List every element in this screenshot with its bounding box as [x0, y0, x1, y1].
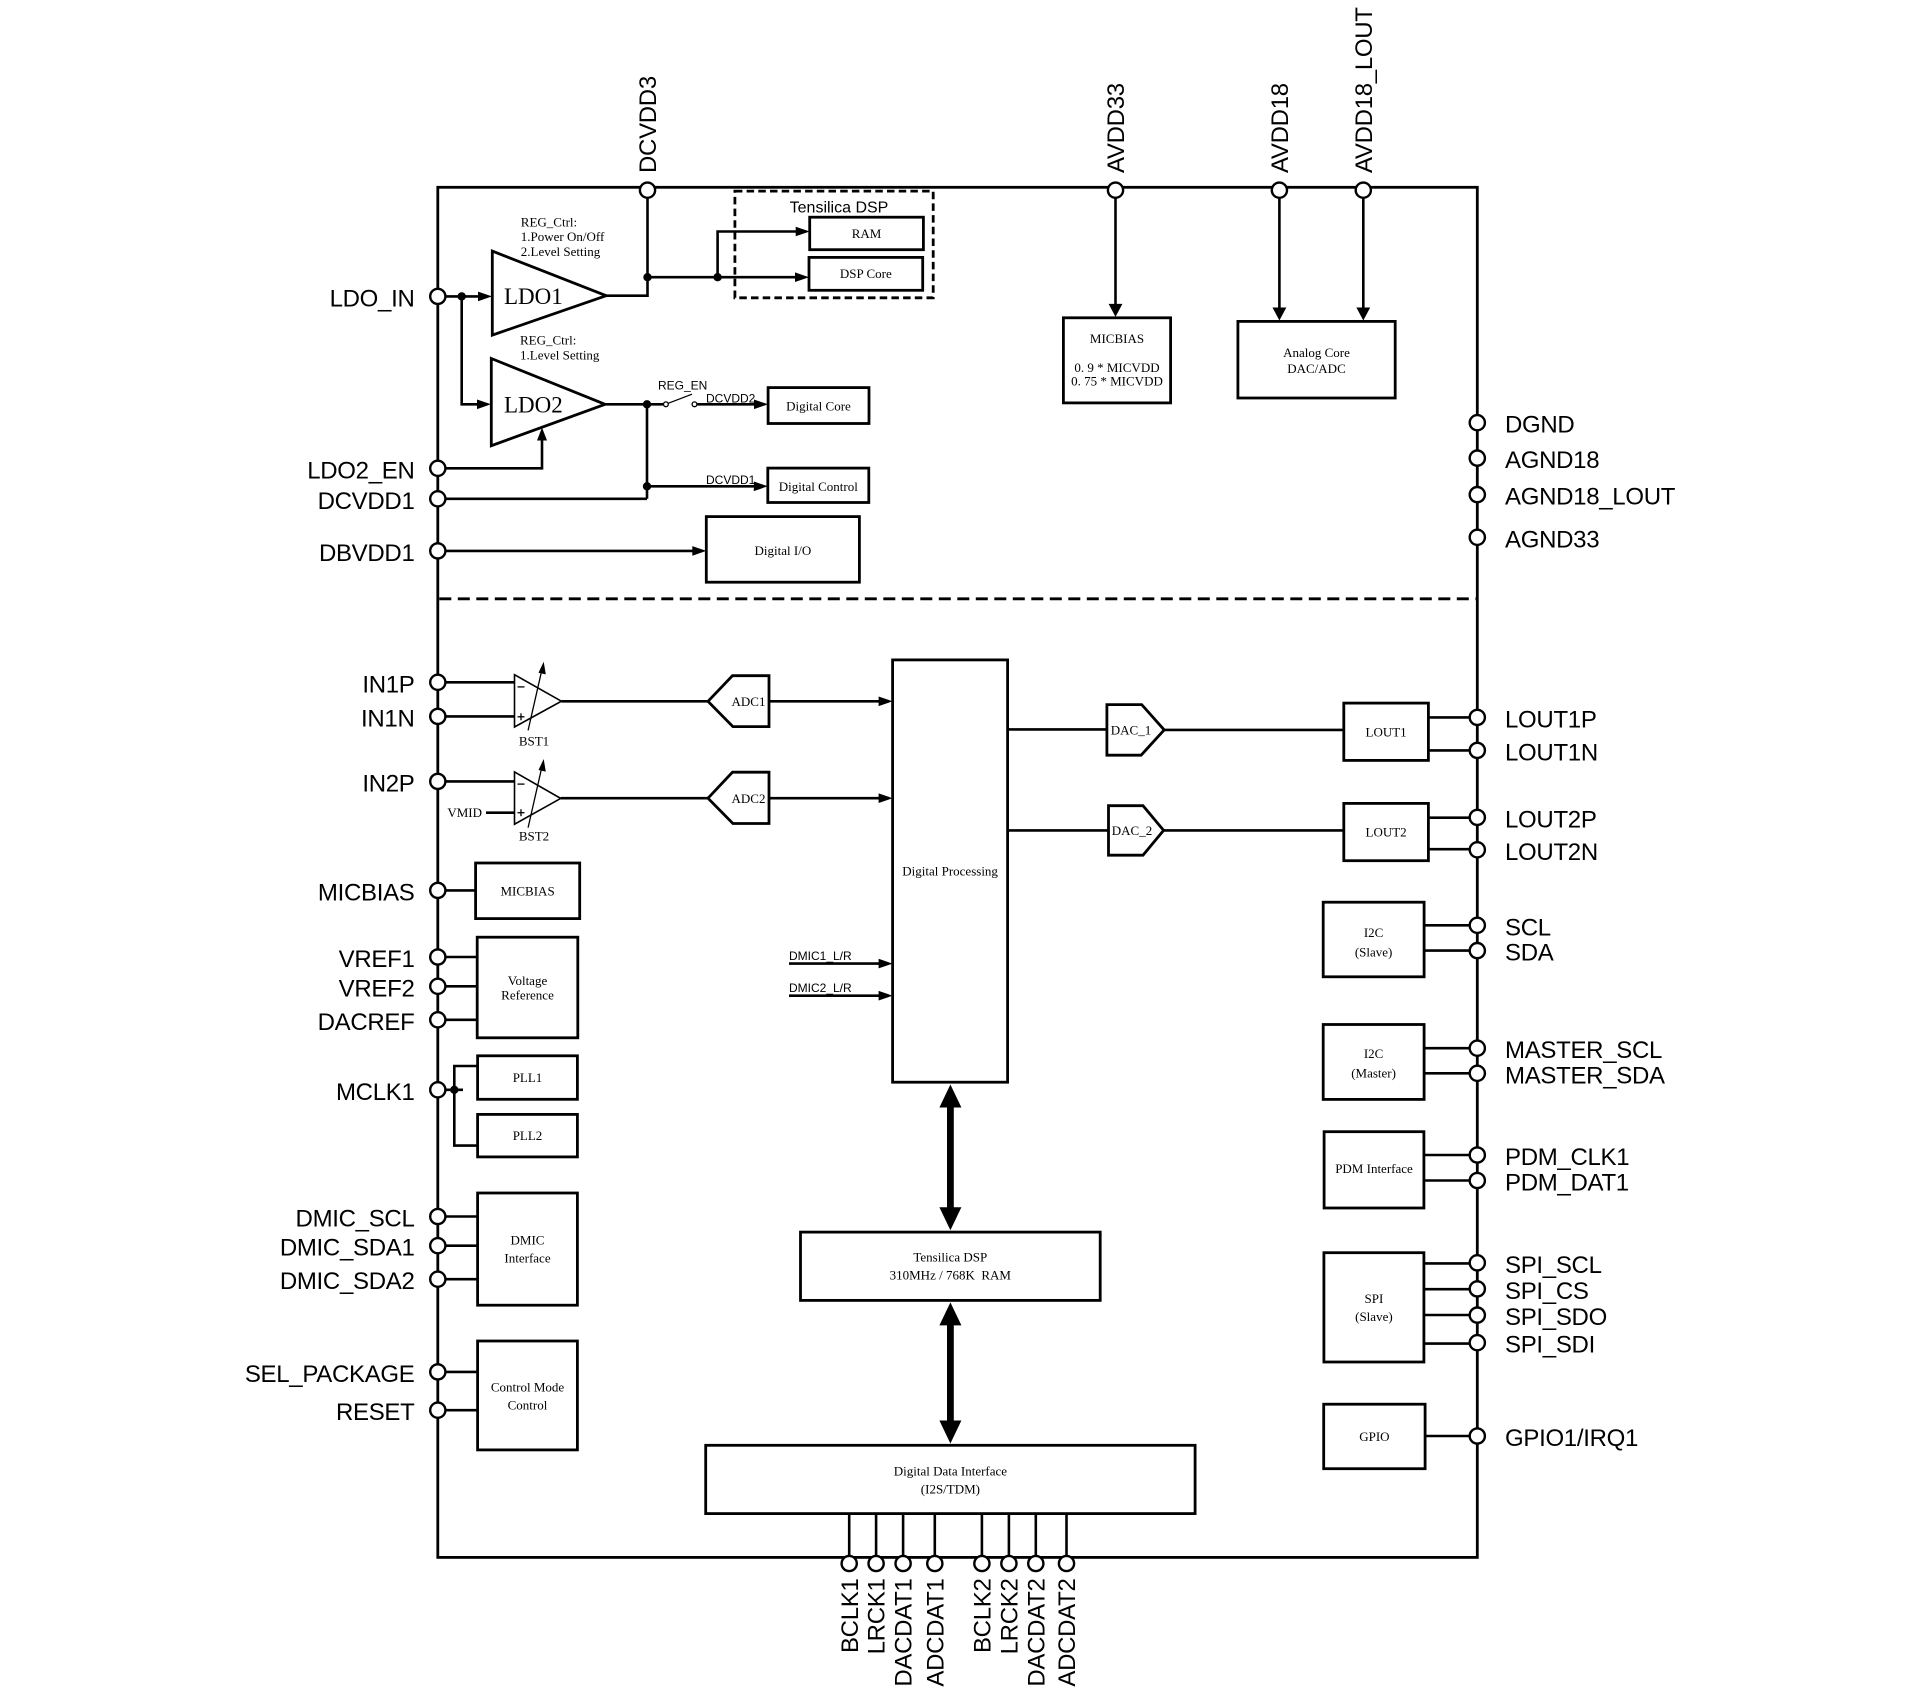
wire Digital Processing to DAC_2 — [1008, 829, 1109, 832]
pin IN1N — [430, 709, 445, 724]
wire branch up to RAM — [718, 232, 798, 278]
wire junction to DSP Core — [648, 276, 798, 279]
wire Digital Processing to DAC_1 — [1008, 728, 1107, 731]
node DCVDD1 branch junction — [643, 482, 651, 490]
svg-text:Interface: Interface — [504, 1251, 550, 1266]
svg-text:PLL1: PLL1 — [513, 1070, 543, 1085]
node MCLK1 junction — [450, 1086, 458, 1094]
pin SPI_SDO — [1470, 1308, 1485, 1323]
wire LDO_IN to LDO1 input — [445, 295, 480, 298]
block PDM Interface — [1324, 1132, 1424, 1208]
pin AVDD18_LOUT — [1356, 183, 1371, 198]
svg-text:Control: Control — [508, 1398, 548, 1413]
wire RESET to Control Mode Control — [445, 1409, 478, 1412]
svg-text:Digital Control: Digital Control — [779, 479, 858, 494]
pin DMIC_SCL — [430, 1209, 445, 1224]
svg-text:AVDD18: AVDD18 — [1267, 83, 1294, 173]
svg-text:SPI_SDO: SPI_SDO — [1505, 1304, 1607, 1331]
svg-text:SEL_PACKAGE: SEL_PACKAGE — [245, 1361, 415, 1388]
svg-text:DMIC_SDA2: DMIC_SDA2 — [280, 1268, 415, 1295]
wire VMID to BST2 — [486, 811, 515, 814]
svg-text:LDO1: LDO1 — [504, 284, 563, 309]
block Analog Core DAC/ADC — [1238, 321, 1395, 398]
svg-text:AVDD33: AVDD33 — [1103, 83, 1130, 173]
svg-text:VMID: VMID — [447, 805, 482, 820]
block Digital Core — [768, 388, 869, 424]
block LOUT1 — [1344, 703, 1429, 760]
block Tensilica DSP 310MHz/768K RAM — [801, 1232, 1101, 1300]
LDO1 regulator triangle — [492, 251, 606, 335]
svg-text:DMIC_SCL: DMIC_SCL — [296, 1206, 415, 1233]
block Digital Processing — [893, 660, 1008, 1082]
wire BCLK1 stub — [848, 1514, 851, 1558]
svg-text:SPI_SDI: SPI_SDI — [1505, 1332, 1595, 1359]
svg-text:Digital Processing: Digital Processing — [902, 864, 998, 879]
wire LDO2 output down to DCVDD1 net — [646, 404, 649, 499]
pin SPI_SDI — [1470, 1335, 1485, 1350]
wire DCVDD2 to Digital Core — [697, 403, 756, 406]
svg-text:DCVDD1: DCVDD1 — [318, 488, 415, 515]
pin DMIC_SDA2 — [430, 1272, 445, 1287]
svg-text:LOUT1N: LOUT1N — [1505, 739, 1598, 766]
wire LDO2_EN to LDO2 level control — [445, 439, 542, 468]
svg-text:ADCDAT1: ADCDAT1 — [922, 1579, 949, 1687]
block RAM — [810, 217, 924, 250]
pin VREF2 — [430, 979, 445, 994]
wire LOUT2 to LOUT2N pin — [1428, 848, 1470, 851]
converter ADC2 — [708, 772, 769, 823]
svg-text:PDM_CLK1: PDM_CLK1 — [1505, 1144, 1629, 1171]
pin LRCK2 — [1001, 1556, 1016, 1571]
converter ADC1 — [708, 676, 769, 727]
wire PDM Interface to PDM_CLK1 pin — [1424, 1154, 1470, 1157]
BST1 gain arrow — [528, 669, 542, 730]
svg-text:DMIC2_L/R: DMIC2_L/R — [789, 981, 852, 995]
pin AGND18 — [1470, 451, 1485, 466]
block PLL2 — [478, 1114, 578, 1157]
svg-text:I2C: I2C — [1364, 925, 1384, 940]
svg-text:SPI_SCL: SPI_SCL — [1505, 1252, 1602, 1279]
pin IN1P — [430, 675, 445, 690]
pin AGND33 — [1470, 530, 1485, 545]
wire DAC_1 to LOUT1 — [1164, 729, 1344, 732]
pin MASTER_SDA — [1470, 1066, 1485, 1081]
wire IN1P to BST1 — [445, 681, 515, 684]
pin GPIO1/IRQ1 — [1470, 1428, 1485, 1443]
block Digital Control — [768, 468, 869, 502]
svg-text:SDA: SDA — [1505, 940, 1554, 967]
svg-text:DCVDD3: DCVDD3 — [635, 76, 662, 173]
node DCVDD3/DSP supply junction — [643, 273, 651, 281]
wire MCLK1 branch to PLL1 — [454, 1066, 477, 1090]
svg-text:Voltage: Voltage — [508, 973, 548, 988]
svg-text:Digital Data Interface: Digital Data Interface — [894, 1464, 1008, 1479]
svg-text:DMIC_SDA1: DMIC_SDA1 — [280, 1235, 415, 1262]
wire MICBIAS pin to block — [445, 889, 476, 892]
svg-text:I2C: I2C — [1364, 1046, 1384, 1061]
svg-text:Control Mode: Control Mode — [491, 1380, 565, 1395]
svg-text:(I2S/TDM): (I2S/TDM) — [921, 1482, 980, 1497]
wire SEL_PACKAGE to Control Mode Control — [445, 1371, 478, 1374]
svg-text:ADC2: ADC2 — [732, 791, 766, 806]
wire DMIC2_L/R into Digital Processing — [789, 994, 881, 997]
LDO2 regulator triangle — [491, 359, 605, 446]
wire LDO_IN junction down to LDO2 input — [462, 296, 479, 404]
svg-text:AGND33: AGND33 — [1505, 526, 1599, 553]
wire LRCK1 stub — [875, 1514, 878, 1558]
svg-text:GPIO: GPIO — [1359, 1429, 1389, 1444]
svg-text:VREF2: VREF2 — [339, 975, 415, 1002]
wire LOUT1 to LOUT1N pin — [1428, 749, 1470, 752]
wire DMIC_SDA2 to DMIC Interface — [445, 1278, 478, 1281]
svg-text:DGND: DGND — [1505, 412, 1574, 439]
wire DMIC_SDA1 to DMIC Interface — [445, 1244, 478, 1247]
svg-text:IN1P: IN1P — [362, 671, 414, 698]
pin LOUT1N — [1470, 743, 1485, 758]
wire SPI to SPI_CS pin — [1424, 1288, 1470, 1291]
svg-text:SPI_CS: SPI_CS — [1505, 1278, 1589, 1305]
node LDO2 output junction — [643, 400, 651, 408]
svg-text:PLL2: PLL2 — [513, 1128, 543, 1143]
svg-text:BST2: BST2 — [519, 829, 549, 844]
BST2 gain arrow — [528, 767, 542, 828]
svg-text:Tensilica DSP: Tensilica DSP — [790, 200, 889, 217]
pin PDM_DAT1 — [1470, 1173, 1485, 1188]
converter DAC_2 — [1109, 806, 1164, 856]
svg-text:LRCK1: LRCK1 — [864, 1579, 891, 1655]
svg-text:DBVDD1: DBVDD1 — [319, 540, 415, 567]
pin DACDAT1 — [896, 1556, 911, 1571]
wire ADCDAT2 stub — [1065, 1514, 1068, 1558]
wire LDO1 output to DCVDD3 pin — [606, 197, 647, 295]
svg-text:LOUT1: LOUT1 — [1366, 724, 1407, 739]
wire AVDD18_LOUT to Analog Core — [1362, 197, 1365, 308]
wire IN2P to BST2 — [445, 780, 515, 783]
block Digital I/O — [706, 517, 859, 583]
svg-text:AVDD18_LOUT: AVDD18_LOUT — [1351, 7, 1378, 173]
svg-text:RESET: RESET — [336, 1399, 415, 1426]
block GPIO — [1324, 1404, 1425, 1469]
svg-text:Digital I/O: Digital I/O — [755, 543, 812, 558]
svg-text:GPIO1/IRQ1: GPIO1/IRQ1 — [1505, 1425, 1638, 1452]
svg-text:2.Level Setting: 2.Level Setting — [521, 244, 601, 259]
svg-text:SCL: SCL — [1505, 914, 1551, 941]
svg-text:LOUT2: LOUT2 — [1366, 825, 1407, 840]
svg-text:RAM: RAM — [852, 226, 882, 241]
wire DMIC1_L/R into Digital Processing — [789, 962, 881, 965]
pin LDO_IN — [430, 289, 445, 304]
pin SCL — [1470, 918, 1485, 933]
block I2C (Master) — [1323, 1025, 1424, 1100]
svg-text:DCVDD1: DCVDD1 — [706, 473, 756, 487]
wire SPI to SPI_SCL pin — [1424, 1262, 1470, 1265]
svg-text:DACDAT2: DACDAT2 — [1023, 1579, 1050, 1687]
wire LDO2 output to switch — [605, 403, 663, 406]
wire DMIC_SCL to DMIC Interface — [445, 1215, 478, 1218]
pin ADCDAT2 — [1059, 1556, 1074, 1571]
wire BST2 to ADC2 — [561, 797, 708, 800]
svg-text:DSP Core: DSP Core — [840, 266, 892, 281]
svg-text:MICBIAS: MICBIAS — [318, 879, 415, 906]
pin LDO2_EN — [430, 461, 445, 476]
pin MICBIAS — [430, 883, 445, 898]
amplifier BST2 — [515, 772, 561, 824]
pin MASTER_SCL — [1470, 1041, 1485, 1056]
pin SPI_SCL — [1470, 1255, 1485, 1270]
wire BST1 to ADC1 — [561, 700, 708, 703]
svg-text:LDO_IN: LDO_IN — [330, 285, 415, 312]
svg-text:REG_Ctrl:: REG_Ctrl: — [521, 215, 577, 230]
svg-text:310MHz / 768K RAM: 310MHz / 768K RAM — [890, 1268, 1012, 1283]
wire AVDD33 to MICBIAS block — [1114, 197, 1117, 305]
svg-text:DAC_2: DAC_2 — [1112, 823, 1152, 838]
wire DCVDD1 branch to Digital Control — [647, 485, 756, 488]
svg-text:LRCK2: LRCK2 — [997, 1579, 1024, 1655]
pin DCVDD1 — [430, 491, 445, 506]
pin LRCK1 — [869, 1556, 884, 1571]
svg-text:DACDAT1: DACDAT1 — [891, 1579, 918, 1687]
svg-text:MICBIAS: MICBIAS — [501, 884, 555, 899]
pin PDM_CLK1 — [1470, 1147, 1485, 1162]
svg-text:DAC_1: DAC_1 — [1111, 723, 1151, 738]
svg-text:AGND18_LOUT: AGND18_LOUT — [1505, 484, 1676, 511]
svg-text:DMIC1_L/R: DMIC1_L/R — [789, 949, 852, 963]
svg-text:1.Level Setting: 1.Level Setting — [520, 347, 600, 362]
wire LOUT2 to LOUT2P pin — [1428, 816, 1470, 819]
svg-text:MASTER_SDA: MASTER_SDA — [1505, 1062, 1665, 1089]
amplifier BST1 — [515, 675, 562, 727]
pin SDA — [1470, 943, 1485, 958]
wire DBVDD1 to Digital I/O — [445, 550, 694, 553]
wire VREF1 to Voltage Reference — [445, 956, 477, 959]
switch REG_EN pole — [664, 402, 669, 407]
wire DAC_2 to LOUT2 — [1164, 829, 1344, 832]
svg-text:PDM_DAT1: PDM_DAT1 — [1505, 1170, 1629, 1197]
svg-text:BST1: BST1 — [519, 734, 549, 749]
wire SPI to SPI_SDO pin — [1424, 1314, 1470, 1317]
block LOUT2 — [1344, 803, 1429, 860]
svg-text:(Master): (Master) — [1351, 1066, 1396, 1081]
converter DAC_1 — [1107, 705, 1164, 756]
svg-text:MICBIAS: MICBIAS — [1090, 331, 1144, 346]
node DSP branch junction — [713, 273, 721, 281]
pin VREF1 — [430, 949, 445, 964]
pin BCLK1 — [842, 1556, 857, 1571]
svg-text:SPI: SPI — [1365, 1291, 1384, 1306]
pin DACREF — [430, 1012, 445, 1027]
block MICBIAS (output) — [476, 863, 580, 919]
svg-text:Digital Core: Digital Core — [786, 398, 851, 413]
wire ADC2 to Digital Processing — [769, 797, 881, 800]
svg-text:Tensilica DSP: Tensilica DSP — [913, 1250, 987, 1265]
svg-text:DACREF: DACREF — [318, 1009, 415, 1036]
node LDO_IN junction — [458, 292, 466, 300]
svg-text:BCLK1: BCLK1 — [837, 1579, 864, 1654]
wire ADC1 to Digital Processing — [769, 700, 881, 703]
chip boundary — [438, 187, 1478, 1557]
svg-text:DCVDD2: DCVDD2 — [706, 392, 756, 406]
wire AVDD18 to Analog Core — [1278, 197, 1281, 308]
wire DACREF to Voltage Reference — [445, 1018, 477, 1021]
svg-text:PDM Interface: PDM Interface — [1335, 1161, 1413, 1176]
wire SPI to SPI_SDI pin — [1424, 1342, 1470, 1345]
bus Tensilica DSP to Digital Data Interface (double arrow) — [947, 1324, 954, 1422]
svg-text:LOUT2P: LOUT2P — [1505, 806, 1597, 833]
pin DBVDD1 — [430, 543, 445, 558]
svg-text:ADC1: ADC1 — [732, 694, 766, 709]
wire MCLK1 to PLLs — [445, 1089, 463, 1092]
wire LOUT1 to LOUT1P pin — [1428, 716, 1470, 719]
block I2C (Slave) — [1323, 902, 1424, 977]
svg-text:Analog Core: Analog Core — [1283, 345, 1350, 360]
block Digital Data Interface (I2S/TDM) — [706, 1445, 1195, 1513]
pin AVDD33 — [1108, 183, 1123, 198]
block DSP Core — [809, 257, 923, 290]
svg-text:AGND18: AGND18 — [1505, 447, 1599, 474]
svg-text:Reference: Reference — [501, 988, 554, 1003]
svg-text:BCLK2: BCLK2 — [970, 1579, 997, 1654]
block Control Mode Control — [478, 1341, 578, 1450]
svg-text:0. 75 * MICVDD: 0. 75 * MICVDD — [1071, 373, 1163, 388]
bus Digital Processing to Tensilica DSP (double arrow) — [947, 1106, 954, 1209]
switch REG_EN blade — [669, 394, 693, 403]
pin AGND18_LOUT — [1470, 487, 1485, 502]
wire PDM Interface to PDM_DAT1 pin — [1424, 1179, 1470, 1182]
wire GPIO to GPIO1/IRQ1 pin — [1425, 1435, 1470, 1438]
block SPI (Slave) — [1324, 1253, 1424, 1362]
pin DCVDD3 — [640, 183, 655, 198]
wire LRCK2 stub — [1008, 1514, 1011, 1558]
svg-text:LOUT2N: LOUT2N — [1505, 839, 1598, 866]
svg-text:LDO2: LDO2 — [504, 392, 563, 417]
pin LOUT1P — [1470, 710, 1485, 725]
pin SPI_CS — [1470, 1281, 1485, 1296]
pin DGND — [1470, 415, 1485, 430]
wire ADCDAT1 stub — [933, 1514, 936, 1558]
svg-text:(Slave): (Slave) — [1355, 1309, 1393, 1324]
pin DMIC_SDA1 — [430, 1238, 445, 1253]
svg-text:DAC/ADC: DAC/ADC — [1287, 361, 1346, 376]
pin IN2P — [430, 774, 445, 789]
svg-text:(Slave): (Slave) — [1355, 945, 1393, 960]
pin MCLK1 — [430, 1082, 445, 1097]
wire DCVDD1 pin to net — [445, 497, 647, 500]
wire BCLK2 stub — [981, 1514, 984, 1558]
wire I2C Master to MASTER_SDA pin — [1424, 1072, 1470, 1075]
analog/digital domain separator dashed line — [439, 597, 1476, 600]
wire I2C Slave to SCL pin — [1424, 924, 1470, 927]
pin ADCDAT1 — [927, 1556, 942, 1571]
wire DACDAT2 stub — [1035, 1514, 1038, 1558]
block Voltage Reference — [477, 937, 578, 1038]
block PLL1 — [478, 1056, 578, 1100]
svg-text:MASTER_SCL: MASTER_SCL — [1505, 1037, 1662, 1064]
svg-text:DMIC: DMIC — [511, 1233, 545, 1248]
wire DACDAT1 stub — [902, 1514, 905, 1558]
pin SEL_PACKAGE — [430, 1364, 445, 1379]
switch REG_EN throw — [692, 402, 697, 407]
pin BCLK2 — [974, 1556, 989, 1571]
svg-text:IN1N: IN1N — [361, 705, 414, 732]
svg-text:VREF1: VREF1 — [339, 946, 415, 973]
wire I2C Slave to SDA pin — [1424, 949, 1470, 952]
wire MCLK1 branch to PLL2 — [454, 1090, 477, 1146]
pin RESET — [430, 1403, 445, 1418]
svg-text:LOUT1P: LOUT1P — [1505, 706, 1597, 733]
wire VREF2 to Voltage Reference — [445, 985, 477, 988]
svg-text:IN2P: IN2P — [362, 770, 414, 797]
svg-text:REG_Ctrl:: REG_Ctrl: — [520, 333, 576, 348]
svg-text:REG_EN: REG_EN — [658, 379, 707, 393]
svg-text:ADCDAT2: ADCDAT2 — [1054, 1579, 1081, 1687]
pin DACDAT2 — [1028, 1556, 1043, 1571]
block DMIC Interface — [478, 1193, 578, 1305]
svg-text:1.Power On/Off: 1.Power On/Off — [521, 229, 605, 244]
block MICBIAS (power) — [1063, 318, 1170, 403]
wire I2C Master to MASTER_SCL pin — [1424, 1047, 1470, 1050]
pin AVDD18 — [1272, 183, 1287, 198]
pin LOUT2N — [1470, 842, 1485, 857]
svg-text:MCLK1: MCLK1 — [336, 1079, 415, 1106]
svg-text:LDO2_EN: LDO2_EN — [307, 457, 414, 484]
pin LOUT2P — [1470, 810, 1485, 825]
Tensilica DSP dashed enclosure — [735, 191, 933, 298]
wire IN1N to BST1 — [445, 715, 515, 718]
